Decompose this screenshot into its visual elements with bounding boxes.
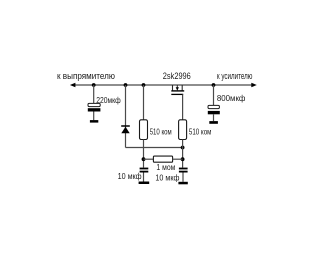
wire C2 top lead — [213, 85, 215, 105]
wire R2 bottom lead (through rail1 and rail2 to C4) — [182, 140, 184, 168]
wire C1 top lead — [93, 85, 95, 103]
capacitor C1 220мкф (electrolytic) — [88, 103, 101, 120]
ground terminal under C1 — [90, 120, 98, 123]
svg-text:800мкф: 800мкф — [217, 94, 246, 103]
node C (rail / R1 junction) — [142, 83, 146, 87]
resistor R1 510 ком — [140, 120, 148, 140]
wire R1 top lead — [143, 85, 145, 120]
resistor R3 1 мом — [153, 156, 172, 162]
label: 10 мкф (right) — [155, 174, 179, 183]
label: 220мкф — [96, 96, 121, 105]
label: 510 ком (left) — [150, 128, 172, 137]
label: 2sk2996 — [163, 71, 191, 81]
ground terminal under C4 — [178, 182, 187, 185]
wire R1 bottom lead (crosses rail1, to rail2 and C3) — [143, 140, 145, 168]
label: 800мкф — [217, 94, 246, 103]
wire top rail — [72, 84, 254, 86]
label: 1 мом — [156, 163, 175, 172]
ground terminal under C3 — [139, 182, 150, 185]
node E (rail1 / R2 lead junction) — [181, 146, 185, 150]
wire rail2 left segment — [144, 158, 154, 160]
svg-text:10 мкф: 10 мкф — [155, 174, 179, 183]
capacitor C4 10 мкф (right) — [179, 168, 188, 182]
svg-text:2sk2996: 2sk2996 — [163, 71, 191, 81]
arrow to rectifier (left) — [70, 83, 76, 87]
label: к выпрямителю — [57, 71, 115, 81]
wire diode branch vertical — [125, 85, 127, 148]
svg-text:510 ком: 510 ком — [189, 128, 212, 137]
svg-text:220мкф: 220мкф — [96, 96, 121, 105]
node A (rail / C1 junction) — [92, 83, 96, 87]
capacitor C2 800мкф (electrolytic) — [208, 105, 220, 121]
transistor VT1 2sk2996 (MOSFET) — [171, 85, 184, 94]
arrow to amplifier (right) — [251, 83, 256, 87]
node F (rail2 left junction) — [142, 157, 146, 161]
wire rail1 (diode to R2 lead) — [126, 147, 183, 149]
label: 510 ком (right) — [189, 128, 212, 137]
node G (rail2 right junction) — [181, 157, 185, 161]
svg-text:1 мом: 1 мом — [156, 163, 175, 172]
label: 10 мкф (left) — [118, 172, 142, 181]
label: к усилителю — [217, 71, 253, 81]
wire rail2 right segment — [173, 158, 183, 160]
ground terminal under C2 — [209, 121, 218, 124]
resistor R2 510 ком — [179, 120, 187, 140]
diode VD1 (cathode up) — [121, 126, 130, 133]
wire gate lead (VT1 gate down to R2) — [182, 94, 184, 119]
node B (rail / diode junction) — [124, 83, 128, 87]
svg-text:510 ком: 510 ком — [150, 128, 172, 137]
svg-text:к выпрямителю: к выпрямителю — [57, 71, 115, 81]
svg-text:10 мкф: 10 мкф — [118, 172, 142, 181]
svg-text:к усилителю: к усилителю — [217, 71, 253, 81]
node D (rail / C2 junction) — [212, 83, 216, 87]
capacitor C3 10 мкф (left) — [140, 168, 149, 182]
